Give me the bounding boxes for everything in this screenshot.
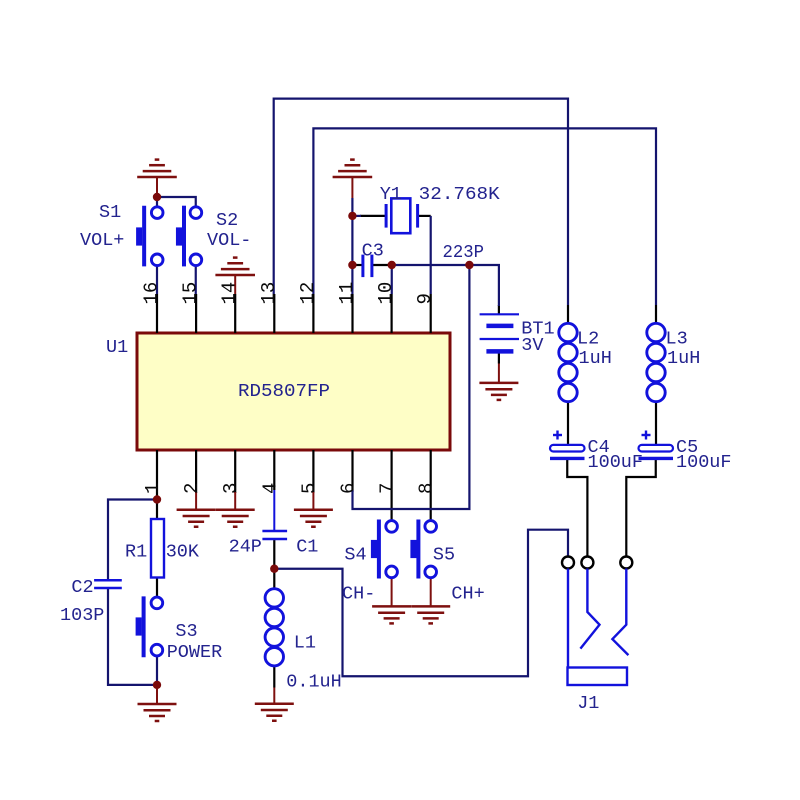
svg-text:S5: S5 <box>433 544 455 565</box>
svg-text:223P: 223P <box>443 242 485 263</box>
svg-text:J1: J1 <box>577 693 599 714</box>
svg-text:7: 7 <box>377 483 399 494</box>
svg-text:CH-: CH- <box>342 583 375 604</box>
svg-text:100uF: 100uF <box>588 452 644 473</box>
svg-text:24P: 24P <box>229 536 262 557</box>
svg-text:2: 2 <box>181 483 203 494</box>
svg-text:1uH: 1uH <box>579 348 612 369</box>
svg-text:0.1uH: 0.1uH <box>286 671 342 692</box>
svg-text:16: 16 <box>141 282 163 305</box>
svg-text:C1: C1 <box>296 536 318 557</box>
svg-text:R1: R1 <box>125 541 147 562</box>
svg-text:3: 3 <box>220 483 242 494</box>
svg-text:VOL+: VOL+ <box>80 230 124 251</box>
svg-text:S3: S3 <box>175 621 197 642</box>
svg-text:1uH: 1uH <box>667 348 700 369</box>
svg-text:C2: C2 <box>71 577 93 598</box>
svg-text:VOL-: VOL- <box>207 230 251 251</box>
svg-text:11: 11 <box>336 282 358 305</box>
svg-text:C3: C3 <box>362 241 384 262</box>
svg-text:S2: S2 <box>216 210 238 231</box>
svg-text:Y1: Y1 <box>380 184 402 205</box>
svg-text:9: 9 <box>414 293 436 304</box>
svg-text:14: 14 <box>219 282 241 305</box>
svg-text:RD5807FP: RD5807FP <box>238 381 330 402</box>
svg-text:S4: S4 <box>344 544 366 565</box>
svg-text:L1: L1 <box>294 633 316 654</box>
svg-text:POWER: POWER <box>167 642 223 663</box>
svg-text:1: 1 <box>142 483 164 494</box>
svg-text:L3: L3 <box>666 329 688 350</box>
svg-text:6: 6 <box>338 483 360 494</box>
svg-text:L2: L2 <box>577 329 599 350</box>
svg-text:5: 5 <box>298 483 320 494</box>
svg-text:103P: 103P <box>60 605 104 626</box>
svg-text:3V: 3V <box>521 335 543 356</box>
svg-text:13: 13 <box>258 282 280 305</box>
svg-text:100uF: 100uF <box>676 452 732 473</box>
svg-text:8: 8 <box>416 483 438 494</box>
svg-text:S1: S1 <box>99 202 121 223</box>
svg-text:10: 10 <box>375 282 397 305</box>
svg-text:15: 15 <box>180 282 202 305</box>
svg-text:12: 12 <box>297 282 319 305</box>
svg-text:U1: U1 <box>106 337 128 358</box>
svg-text:CH+: CH+ <box>451 583 484 604</box>
svg-text:4: 4 <box>259 483 281 494</box>
svg-text:32.768K: 32.768K <box>419 184 501 205</box>
svg-text:30K: 30K <box>166 541 200 562</box>
